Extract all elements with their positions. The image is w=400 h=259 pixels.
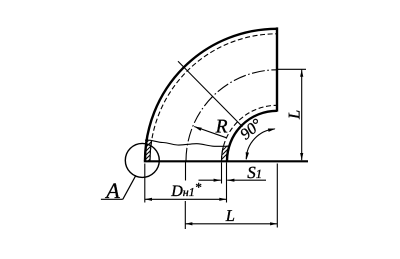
- svg-text:L: L: [285, 110, 304, 120]
- inner bore solid segment in local section: [221, 146, 223, 161]
- svg-text:S1: S1: [247, 163, 262, 182]
- S1 dimension line right piece: [227, 179, 266, 181]
- centerline extension below bottom face: [185, 162, 187, 181]
- centerline arc (dash-dot): [186, 70, 277, 161]
- label A shelf (underline): [101, 198, 123, 200]
- angle arc arrowhead bottom: [245, 152, 249, 160]
- bottom L arrow right: [270, 222, 277, 225]
- svg-text:L: L: [225, 206, 235, 225]
- detail circle A: [125, 143, 159, 177]
- 90-degree angle arc: [246, 129, 275, 159]
- centerline extension lower segment: [184, 201, 186, 229]
- svg-text:90°: 90°: [237, 116, 266, 144]
- bottom end face line extended right: [144, 160, 308, 162]
- 45-degree radial construction line: [178, 61, 243, 127]
- extension line S1 inner: [221, 163, 223, 184]
- dimension line right L: [301, 70, 303, 161]
- outer bore solid segment in local section: [150, 141, 152, 161]
- svg-text:A: A: [104, 178, 120, 203]
- right L arrow bottom: [300, 153, 303, 160]
- Dn1 arrow left: [145, 198, 152, 201]
- angle arc arrowhead top: [268, 127, 276, 132]
- bottom L arrow left: [185, 222, 192, 225]
- radius arrowhead: [194, 125, 202, 131]
- extension line Dn1/S1 right outer: [226, 163, 228, 203]
- dimension line Dn1: [145, 198, 227, 200]
- dimension line bottom L: [185, 223, 277, 225]
- S1 arrow pointing left: [227, 179, 234, 182]
- extension line Dn1 left: [144, 164, 146, 203]
- inner arc of elbow: [227, 111, 277, 161]
- svg-text:Dн1*: Dн1*: [170, 180, 202, 201]
- extension line right face for bottom L: [276, 164, 278, 228]
- S1 arrow pointing right: [214, 179, 221, 182]
- left wall hatched band: [139, 132, 161, 178]
- outer bore hidden arc (dashed): [150, 34, 277, 161]
- outer arc of elbow: [145, 29, 277, 161]
- right L arrow top: [300, 70, 303, 77]
- leader line to label A: [123, 175, 136, 199]
- right wall hatched band: [215, 136, 237, 174]
- radius leader line R: [194, 127, 226, 138]
- S1 dimension line left piece: [199, 179, 221, 181]
- svg-text:R: R: [215, 117, 228, 138]
- Dn1 arrow right: [219, 198, 226, 201]
- top end face: [276, 27, 278, 111]
- wavy break line of local section: [145, 140, 230, 146]
- extension line top for right L: [278, 68, 307, 70]
- inner bore hidden arc (dashed): [222, 105, 278, 161]
